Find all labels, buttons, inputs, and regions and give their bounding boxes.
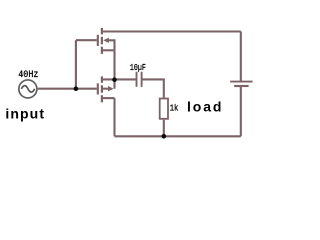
node C junction dot (162, 134, 167, 139)
right rail lower wire (240, 86, 242, 136)
wire Q2 source down to bottom rail (113, 98, 115, 136)
transistor Q1 channel dash 1 (101, 28, 103, 34)
svg-text:input: input (5, 106, 45, 122)
battery B1 long plate (230, 81, 252, 83)
transistor Q1 channel dash 2 (101, 37, 103, 45)
svg-text:10µF: 10µF (130, 63, 146, 73)
transistor Q1 body lead with vertical to source (108, 40, 115, 50)
transistor Q2 source stub (102, 97, 115, 99)
capacitor C1 left plate (136, 72, 138, 87)
transistor Q2 body vertical to node B (113, 79, 115, 88)
transistor Q2 body arrow (108, 86, 114, 91)
wire node A up (75, 40, 77, 88)
transistor Q2 body lead (102, 88, 109, 90)
transistor Q2 channel dash 2 (101, 85, 103, 92)
transistor Q1 body arrow (103, 38, 109, 43)
transistor Q1 channel dash 3 (101, 47, 103, 54)
ac source V1 input (19, 80, 37, 98)
wire node A to Q2 gate (76, 88, 97, 90)
wire node B to capacitor C1 (115, 78, 136, 80)
transistor Q2 channel dash 3 (101, 95, 103, 102)
transistor Q1 gate bar (97, 35, 99, 46)
wire input to node A (38, 88, 76, 90)
transistor Q2 channel dash 1 (101, 76, 103, 82)
bottom rail wire (115, 135, 241, 137)
wire resistor to bottom rail (163, 120, 165, 137)
transistor Q1 source stub (102, 49, 115, 51)
wire to Q1 gate (76, 39, 97, 41)
node A junction dot (74, 86, 79, 91)
wire capacitor to resistor corner (143, 79, 164, 97)
transistor Q2 gate bar (97, 83, 99, 94)
sine wave (21, 86, 34, 93)
svg-text:40Hz: 40Hz (18, 68, 38, 80)
wire Q1 source down to node B (113, 50, 115, 79)
svg-text:load: load (187, 99, 223, 115)
svg-text:1k: 1k (170, 103, 179, 114)
capacitor C1 right plate (141, 72, 143, 87)
transistor Q2 drain stub to node B (102, 78, 115, 80)
node B junction dot (112, 77, 117, 82)
battery B1 short plate (234, 85, 248, 87)
resistor R1 box (160, 99, 168, 119)
top rail wire from Q1 drain (102, 30, 241, 32)
right rail upper wire (240, 32, 242, 82)
